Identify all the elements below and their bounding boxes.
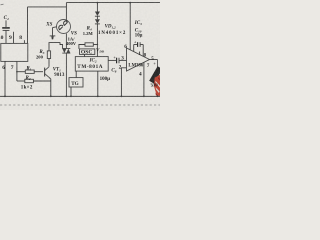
wire IC2 ground (97, 71, 99, 96)
wire emitter down (50, 79, 52, 97)
wire pin7 to R2 (17, 80, 25, 82)
wire IC1 pin7 drop (16, 61, 18, 81)
wire R2 to emitter (33, 80, 50, 82)
triac VS (62, 34, 70, 97)
wire top left sub-rail (28, 6, 67, 8)
speaker BL (154, 75, 160, 96)
wire pin2 ground (121, 68, 126, 97)
resistor R2 (25, 79, 34, 82)
stray mark top-left (1, 3, 4, 6)
wire XS drop (65, 3, 67, 20)
resistor R4 (79, 43, 98, 49)
wire output (150, 59, 158, 61)
wire IC2 to TG (75, 71, 77, 78)
resistor R1 (25, 70, 34, 73)
junction dots (4, 2, 158, 98)
wire pin6 supply (129, 3, 131, 50)
capacitor C4 (2, 20, 10, 43)
diode VD1 (95, 3, 100, 17)
plug P1 (50, 27, 57, 40)
op-amp IC1 box (1, 43, 28, 61)
op-amp IC2 box (75, 57, 108, 72)
wire left drop to IC1 pin8 corner (27, 7, 29, 44)
wire R3 to gate (49, 43, 63, 51)
diode VD2 (95, 16, 100, 56)
dashed page border bottom (0, 104, 160, 106)
capacitor C8 (117, 58, 127, 64)
wire collector up (48, 59, 50, 67)
wire IC2 out (108, 59, 116, 61)
wire pin7 to R1 (17, 71, 25, 73)
op-amp U3 LM386 (127, 48, 150, 71)
wire IC1 pin6 drop (4, 61, 6, 96)
wire bottom rail (0, 95, 160, 97)
resistor R3 (47, 51, 50, 59)
wire OSC to IC2 (84, 54, 86, 56)
wire top main rail (66, 2, 160, 4)
transistor Q1 VT1 (45, 67, 51, 79)
wire IC1 pin8 stub (23, 40, 25, 43)
socket XS (57, 20, 71, 34)
transducer TG box (69, 78, 83, 87)
capacitor C11 (152, 60, 160, 97)
oscillator OSC box (80, 49, 95, 55)
wire pin4 ground (143, 62, 145, 96)
labels (0, 16, 158, 91)
wire IC1 pin9 (13, 32, 15, 44)
capacitor C10 (134, 42, 144, 56)
wire R1 to base (34, 71, 43, 73)
wire TG ground (70, 87, 72, 96)
